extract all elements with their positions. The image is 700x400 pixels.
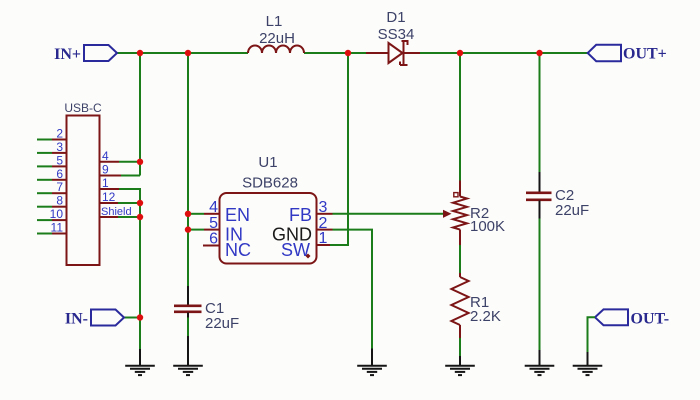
- svg-text:12: 12: [102, 190, 116, 204]
- wire top rail D1 cathode to OUT+: [420, 52, 588, 54]
- resistor R1 bottom lead: [459, 325, 461, 338]
- wire OUT- flag to ground: [588, 317, 596, 352]
- USB-C right pin 9: [100, 163, 122, 177]
- U1 pin 6 NC stub: [203, 231, 251, 260]
- USB-C left pin 10: [37, 207, 67, 221]
- wire vertical C2 branch: [539, 53, 541, 172]
- svg-text:SW: SW: [281, 240, 310, 260]
- svg-text:OUT+: OUT+: [623, 46, 667, 63]
- junction dot IN pin: [185, 226, 191, 232]
- wire IN- flag stub: [124, 317, 140, 319]
- USB-C left pin 3: [37, 140, 67, 154]
- R2 wiper arrow: [443, 210, 452, 218]
- U1 pin 3 FB stub: [289, 199, 333, 225]
- svg-text:4: 4: [209, 199, 218, 216]
- USB-C right shield pin: [100, 206, 132, 218]
- wire SW pin to top rail: [330, 53, 348, 245]
- junction dot IN+ at x140: [137, 50, 143, 56]
- svg-text:SDB628: SDB628: [242, 175, 298, 192]
- svg-text:3: 3: [56, 140, 63, 154]
- U1 pin 1 SW stub: [281, 230, 330, 260]
- USB-C left pin 5: [37, 153, 67, 167]
- svg-text:2.2K: 2.2K: [470, 308, 501, 325]
- svg-text:8: 8: [56, 194, 63, 208]
- flag IN-: [91, 310, 124, 326]
- capacitor C1: [174, 286, 202, 318]
- svg-text:1: 1: [102, 176, 109, 190]
- svg-text:22uF: 22uF: [555, 202, 589, 219]
- wire vertical rail x188 to U1 EN IN and C1: [187, 53, 189, 286]
- svg-text:3: 3: [319, 199, 328, 216]
- svg-text:100K: 100K: [470, 218, 505, 235]
- U1 polarity diamond mark: [306, 254, 311, 259]
- USB-C left pin 2: [37, 127, 67, 141]
- junction dot USB shield: [137, 214, 143, 220]
- U1 pin 2 GND stub: [272, 215, 333, 245]
- wire vertical IN+ rail to USB pin4: [139, 53, 141, 176]
- junction dot EN: [185, 211, 191, 217]
- wire FB to R2 wiper: [333, 213, 444, 215]
- IC U1 body: [220, 193, 317, 264]
- diode D1 cathode lead: [404, 52, 421, 54]
- flag OUT-: [595, 309, 628, 325]
- svg-text:4: 4: [102, 149, 109, 163]
- svg-text:11: 11: [51, 221, 64, 235]
- svg-text:D1: D1: [386, 9, 405, 26]
- svg-text:NC: NC: [225, 240, 251, 260]
- inductor L1: [248, 46, 304, 53]
- wire R1 to ground: [459, 338, 461, 356]
- svg-text:22uH: 22uH: [259, 30, 295, 47]
- wire C2 bottom to ground: [539, 219, 541, 351]
- U1 pin 4 EN stub: [204, 199, 250, 225]
- svg-text:7: 7: [56, 180, 63, 194]
- USB-C left pin 11: [37, 221, 67, 235]
- flag OUT+: [588, 45, 621, 61]
- USB-C right pin 1: [100, 176, 120, 190]
- diode D1 schottky cathode bar: [400, 41, 408, 65]
- svg-text:USB-C: USB-C: [64, 101, 102, 115]
- diode D1 anode lead: [366, 52, 388, 54]
- USB-C right pin 12: [100, 190, 119, 204]
- diode D1 body: [389, 43, 403, 63]
- svg-text:OUT-: OUT-: [631, 311, 670, 328]
- svg-text:FB: FB: [289, 205, 312, 225]
- U1 pin 5 IN stub: [204, 215, 243, 245]
- potentiometer R2 marker square: [454, 193, 458, 197]
- svg-text:6: 6: [209, 231, 218, 248]
- wire USB shield pin: [118, 216, 140, 218]
- ground IN- net: [125, 349, 155, 375]
- svg-text:EN: EN: [225, 205, 250, 225]
- ground R1 net: [445, 356, 475, 375]
- USB-C left pin 6: [37, 167, 67, 181]
- svg-text:Shield: Shield: [101, 206, 132, 218]
- wire USB pin9 riser: [121, 175, 140, 177]
- junction dot SW node: [345, 50, 351, 56]
- potentiometer R2 bottom lead: [459, 230, 461, 246]
- resistor R1 zigzag body: [451, 277, 468, 325]
- svg-text:IN-: IN-: [65, 311, 88, 328]
- wire GND pin to ground: [333, 230, 373, 349]
- wire USB pin1 down to shield and IN- and ground: [119, 189, 140, 349]
- ground C1: [173, 336, 203, 375]
- svg-text:10: 10: [50, 207, 64, 221]
- svg-text:5: 5: [56, 153, 63, 167]
- USB-C left pin 8: [37, 194, 67, 208]
- wire top rail IN+ to D1 anode: [117, 52, 248, 54]
- wire IN pin stub: [188, 229, 204, 231]
- junction dot OUT+ at C2: [536, 50, 542, 56]
- USB-C right pin 4: [100, 149, 120, 163]
- ground U1 GND net: [357, 349, 387, 376]
- ground OUT- net: [573, 352, 603, 375]
- svg-text:2: 2: [56, 127, 63, 141]
- junction dot OUT+ at R2: [457, 50, 463, 56]
- potentiometer R2 zigzag body: [453, 197, 467, 230]
- junction dot USB pin4: [137, 159, 143, 165]
- svg-text:22uF: 22uF: [205, 315, 239, 332]
- connector USB-C body: [67, 116, 100, 266]
- svg-text:SS34: SS34: [378, 26, 415, 43]
- USB-C left pin 7: [37, 180, 67, 194]
- wire C1 bottom to ground: [187, 318, 189, 337]
- junction dot USB pin12: [137, 200, 143, 206]
- svg-text:6: 6: [56, 167, 63, 181]
- ground C2 net: [525, 350, 555, 375]
- svg-text:9: 9: [102, 163, 109, 177]
- wire R2 to R1: [459, 245, 461, 273]
- svg-text:5: 5: [209, 215, 218, 232]
- svg-text:U1: U1: [258, 154, 277, 171]
- wire USB pin12: [118, 202, 140, 204]
- wire EN pin stub: [188, 213, 204, 215]
- wire vertical OUT+ rail to R2: [459, 53, 461, 181]
- svg-text:L1: L1: [266, 13, 283, 30]
- junction dot IN+ at x188: [185, 50, 191, 56]
- flag IN+: [84, 45, 117, 61]
- wire USB pin4: [119, 161, 140, 163]
- junction dot IN-: [137, 314, 143, 320]
- svg-text:IN+: IN+: [54, 46, 81, 63]
- resistor R1 top lead: [459, 273, 461, 277]
- wire top rail L1 to D1: [304, 52, 366, 54]
- svg-text:1: 1: [319, 230, 328, 247]
- potentiometer R2 top lead: [459, 181, 461, 197]
- capacitor C2: [526, 172, 552, 219]
